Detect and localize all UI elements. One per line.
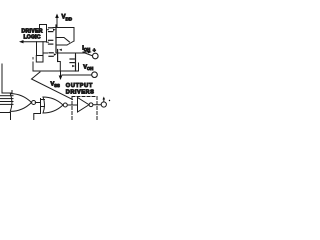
- svg-text:VSS: VSS: [51, 82, 61, 89]
- node dot: [109, 100, 110, 101]
- transistor Q2 (lower PMOS): [49, 38, 68, 53]
- terminal output pad: [93, 53, 99, 59]
- wire callout diagonal: [32, 72, 73, 100]
- wire input arrow to driver logic: [19, 40, 47, 43]
- wire gate stub: [42, 42, 44, 56]
- wire gate bus down: [36, 42, 38, 56]
- box corner left edge: [32, 62, 34, 71]
- wire VSS rail right stub: [78, 63, 80, 71]
- wire G2 input stubs: [41, 100, 45, 107]
- svg-text:VOH: VOH: [83, 64, 93, 71]
- wire VDD right drop: [73, 28, 75, 42]
- wire bottom left: [0, 113, 11, 121]
- svg-text:DRIVERS: DRIVERS: [66, 90, 94, 96]
- power VSS arrow: [59, 71, 63, 80]
- power VDD arrow: [55, 14, 59, 28]
- wire VDD rail: [53, 27, 74, 29]
- svg-text:LOGIC: LOGIC: [24, 34, 41, 40]
- transistor Q4 (right NMOS): [70, 53, 76, 71]
- terminal output pin: [101, 97, 106, 108]
- wire output node: [56, 53, 92, 56]
- svg-text:VDD: VDD: [62, 14, 73, 21]
- boundary dashed box: [72, 97, 97, 121]
- wire gate connectors: [47, 29, 49, 31]
- wire G1 inputs: [0, 96, 13, 105]
- node test box: [36, 56, 43, 63]
- wire left edge input: [2, 64, 12, 93]
- wire G1 output: [35, 102, 40, 104]
- terminal VOH minus pad: [92, 72, 98, 78]
- transistor Q3 (left NMOS): [43, 50, 60, 72]
- gate G2 (NOR): [43, 97, 67, 113]
- wire IOH arrow: [83, 51, 92, 54]
- wire VOH minus stub: [62, 74, 91, 76]
- svg-text:OUTPUT: OUTPUT: [66, 83, 93, 89]
- gate G1 (NOR): [10, 94, 35, 112]
- transistor Q1 (upper PMOS): [49, 25, 70, 42]
- wire G2 output: [67, 104, 77, 106]
- buffer U1 (inverter): [78, 98, 93, 113]
- wire gate loop over driver logic: [40, 25, 47, 42]
- wire VSS rail: [33, 70, 79, 72]
- wire U1 output: [93, 104, 101, 106]
- wire input bus G2: [34, 99, 41, 121]
- wire diagonal to Q2 source: [67, 41, 74, 45]
